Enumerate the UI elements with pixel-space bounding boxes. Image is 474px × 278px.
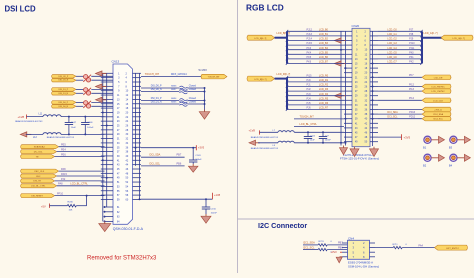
wire filter U12 to CN13 [91, 102, 113, 106]
CN4 pin numbers [353, 241, 366, 259]
CN4 pin stubs [342, 243, 375, 257]
svg-text:BEAD/FCM1608KF-601T03: BEAD/FCM1608KF-601T03 [251, 147, 279, 150]
ground arrow CN20 left row 3 [335, 38, 346, 43]
bus wire LCD_R [275, 77, 288, 109]
svg-text:EXT_RST12: EXT_RST12 [446, 248, 459, 250]
CN13 pin stubs [101, 73, 141, 199]
svg-text:DSI_RESET: DSI_RESET [31, 195, 43, 197]
svg-text:+3V3: +3V3 [404, 136, 411, 140]
power +1V8 (right) [212, 193, 220, 199]
junction dot C150 [205, 198, 207, 200]
wire +3V3_D [378, 109, 422, 111]
svg-text:TOUCH_INT: TOUCH_INT [145, 73, 160, 76]
wire L11 to CN13 [61, 116, 105, 118]
capacitor C77 [319, 132, 332, 143]
svg-text:PF10: PF10 [57, 193, 64, 196]
power +5V [41, 204, 50, 209]
resistor R741 0 [318, 248, 332, 253]
resistor R236 10K [67, 202, 76, 212]
connector CN20 (RGB LCD) [352, 24, 371, 147]
svg-text:C146: C146 [87, 122, 93, 124]
wire DCI_SDA [378, 113, 422, 115]
wire +3V3 row [141, 147, 196, 149]
port flag CEC_CLK [21, 169, 59, 173]
wire SB37 to rail [187, 91, 204, 93]
svg-text:LCD_VSYNC: LCD_VSYNC [432, 91, 446, 93]
resistor R731 0 [318, 241, 332, 246]
svg-text:PE4: PE4 [61, 149, 66, 152]
svg-text:C149: C149 [195, 155, 201, 157]
svg-text:B2: B2 [423, 163, 427, 167]
svg-text:PJ8: PJ8 [409, 33, 414, 36]
junction dots on left rails [102, 111, 108, 178]
CN13 pin numbers [117, 72, 129, 201]
svg-text:DSI_D0_N: DSI_D0_N [59, 106, 69, 108]
svg-text:PJ1: PJ1 [307, 84, 312, 87]
svg-text:RGB LCD: RGB LCD [246, 3, 284, 13]
junction dot C149 [192, 147, 194, 149]
svg-text:SB36: SB36 [171, 86, 177, 88]
svg-text:CN4: CN4 [348, 236, 354, 240]
svg-text:LCD_B7: LCD_B7 [319, 61, 329, 64]
svg-text:I2C_SCL: I2C_SCL [34, 151, 44, 153]
wire SB35 to rail [187, 103, 204, 105]
svg-text:DSI LCD: DSI LCD [5, 5, 37, 14]
power +3V3 CN4 [331, 250, 343, 254]
svg-text:R731: R731 [319, 241, 325, 243]
svg-text:+5V: +5V [41, 205, 46, 209]
svg-text:LCD_G7: LCD_G7 [387, 61, 397, 64]
connector CN13 (DSI, QSH-030) [112, 60, 133, 225]
svg-text:PK0: PK0 [409, 51, 414, 54]
wire SDA/SDA4 to CN13 [59, 146, 105, 148]
svg-text:LCD_R3: LCD_R3 [319, 88, 329, 91]
wire SB36 to rail [187, 87, 204, 89]
svg-text:PI12: PI12 [409, 83, 415, 86]
wire LCD_BL_CTRL [57, 185, 105, 187]
svg-text:100nF: 100nF [325, 140, 332, 142]
svg-text:LCD_DE: LCD_DE [434, 77, 443, 79]
common-mode filter U11 [83, 88, 91, 96]
svg-text:To MFX: To MFX [198, 69, 207, 72]
svg-text:DSI_TE: DSI_TE [33, 181, 41, 183]
button B2 [423, 154, 445, 167]
inductor L7 [273, 130, 295, 132]
resistor R711 0 [393, 244, 408, 249]
CN20 pin numbers [355, 30, 368, 143]
svg-text:10nF: 10nF [71, 127, 77, 129]
svg-text:DCI_SDA: DCI_SDA [150, 154, 161, 157]
svg-text:SB35: SB35 [171, 102, 177, 104]
svg-text:PE5: PE5 [61, 144, 66, 147]
port flag DSI_D0_N [52, 105, 77, 109]
ground under C149 [188, 164, 198, 172]
solder bridge SB37 [179, 90, 187, 94]
CN13 shield pins 61-64 [104, 206, 121, 223]
wire TOUCH_INT [141, 76, 201, 78]
wire DSI_D1_N to filter [76, 92, 83, 94]
ground arrow CN4 pin7 [336, 257, 342, 263]
svg-text:SSM-104-L-DH (Samtec): SSM-104-L-DH (Samtec) [348, 264, 379, 268]
svg-text:PE6: PE6 [61, 153, 66, 156]
svg-text:PI15: PI15 [307, 74, 313, 77]
ground under CN20 right rail [370, 147, 379, 157]
ground arrow CN20 left row 8 [335, 61, 346, 66]
svg-text:BEAD/FCM1608KF-601T03: BEAD/FCM1608KF-601T03 [251, 136, 279, 139]
wire I2C_SCL to CN13 [57, 151, 105, 153]
svg-text:LCD_G2: LCD_G2 [387, 38, 397, 41]
wire R741 to CN4 [327, 249, 347, 251]
port flag TE [21, 155, 55, 159]
svg-text:CN20: CN20 [352, 24, 360, 28]
wire DSI_D0_P to filter [76, 101, 83, 103]
ground under CN20 left rails [340, 146, 348, 155]
junction dots RGB bead rows [307, 131, 324, 144]
port flag LCD_DE [422, 75, 451, 80]
svg-text:PA4: PA4 [418, 244, 423, 247]
wire LCD_BL_CTRL (RGB) [294, 126, 344, 128]
wire filter U10 to CN13 [91, 76, 113, 80]
ground under CN13 left rails [99, 221, 111, 231]
inductor L12 [33, 133, 61, 140]
ground under CN20 [350, 147, 359, 157]
port flag LCD_HSYNC [422, 84, 451, 89]
svg-text:LCD_HSYNC: LCD_HSYNC [431, 87, 445, 89]
wire L7 to CN20 [294, 131, 344, 133]
svg-text:I2C4_SDA: I2C4_SDA [433, 113, 443, 116]
svg-text:CN13: CN13 [112, 60, 120, 64]
svg-text:PK1: PK1 [409, 56, 414, 59]
power +1V8 (DSI) [18, 115, 27, 119]
port flag DSI_D1_N [52, 92, 77, 96]
wire LCD_VSYNC [378, 90, 422, 92]
svg-text:LCD_B0: LCD_B0 [319, 28, 329, 31]
svg-text:PJ5: PJ5 [307, 102, 312, 105]
svg-text:LCD_G[0..7]: LCD_G[0..7] [453, 38, 466, 40]
bus wire LCD_G [422, 31, 442, 63]
svg-text:PJ14: PJ14 [307, 38, 313, 41]
svg-text:PJ4: PJ4 [307, 97, 312, 100]
svg-text:LCD_B4: LCD_B4 [319, 47, 329, 50]
port flag DSI_TE [21, 179, 55, 183]
svg-text:PJ9: PJ9 [409, 38, 414, 41]
svg-text:LCD_B3: LCD_B3 [319, 42, 329, 45]
svg-text:B4: B4 [449, 163, 453, 167]
svg-text:LCD_G[0..7]: LCD_G[0..7] [424, 32, 438, 35]
button B1 [423, 136, 445, 149]
svg-text:PJ3: PJ3 [307, 93, 312, 96]
capacitor C156 [304, 132, 316, 143]
wire +1V8 RGB feed [260, 131, 279, 133]
capacitor C149 [189, 148, 202, 164]
svg-text:DSI_D1_P: DSI_D1_P [59, 89, 69, 91]
svg-text:LCD_B5: LCD_B5 [319, 51, 329, 54]
capacitor C147 [65, 117, 77, 135]
svg-text:100nF: 100nF [195, 159, 202, 161]
button B4 [449, 154, 471, 167]
svg-text:LCD_B2: LCD_B2 [319, 38, 329, 41]
power +1V8 (RGB) [249, 129, 260, 135]
svg-text:LCD_B[0..7]: LCD_B[0..7] [254, 38, 266, 40]
svg-text:PJ10: PJ10 [409, 42, 415, 45]
svg-text:PK2: PK2 [409, 61, 414, 64]
svg-text:PJ6: PJ6 [307, 107, 312, 110]
ground arrow pin row 1 [96, 71, 107, 76]
svg-text:BEAD/FCM1608KF-601T03: BEAD/FCM1608KF-601T03 [47, 136, 75, 139]
svg-text:LCD_R1: LCD_R1 [319, 79, 329, 82]
svg-text:+3V3_D: +3V3_D [434, 110, 442, 112]
svg-text:PD13: PD13 [409, 111, 416, 114]
bus flag LCD_B[0..7] [247, 35, 275, 40]
wire: CN20 right rail [372, 31, 374, 146]
port flag DSI_D0_P [52, 101, 77, 105]
svg-text:+3V3: +3V3 [331, 250, 338, 254]
svg-text:Closed: Closed [189, 98, 197, 100]
svg-text:I2C Connector: I2C Connector [258, 221, 307, 230]
bus flag LCD_R[0..7] [247, 76, 275, 81]
svg-text:PJ12: PJ12 [307, 28, 313, 31]
svg-text:TOUCH_INT: TOUCH_INT [300, 116, 315, 119]
wire +5V to R236 [50, 205, 68, 207]
svg-text:+1V8: +1V8 [214, 193, 221, 197]
solder bridge SB35 [179, 102, 187, 106]
svg-text:DSI_D0_P: DSI_D0_P [59, 102, 69, 104]
svg-text:LCD_R4: LCD_R4 [319, 93, 329, 96]
svg-text:SDA/SDA4: SDA/SDA4 [34, 145, 46, 148]
svg-text:C147: C147 [71, 122, 77, 124]
svg-text:I2C4_SCL: I2C4_SCL [433, 119, 443, 121]
wire L12 to CN13 [61, 133, 105, 135]
bus wire LCD_B [275, 31, 288, 63]
capacitor C150 [202, 199, 218, 214]
svg-text:DSI_CK_P: DSI_CK_P [59, 76, 69, 78]
wires LCD_R0..R7 with labels [286, 74, 344, 111]
wire filter U11 to CN13 [91, 89, 113, 93]
power +3V3 (touch) [196, 145, 204, 150]
wire R236 to DSI_RESET [76, 196, 86, 206]
svg-text:LCD_R6: LCD_R6 [319, 102, 329, 105]
svg-text:B1: B1 [423, 145, 427, 149]
wire L8 row [258, 142, 278, 144]
svg-text:CEC: CEC [36, 176, 41, 178]
wire LCD_DE [378, 76, 422, 78]
svg-text:PJ0: PJ0 [307, 79, 312, 82]
svg-text:LCD_BL_CTRL: LCD_BL_CTRL [300, 123, 318, 126]
port flag SDA/SDA4 [21, 145, 59, 149]
svg-text:LCD_R7: LCD_R7 [319, 107, 329, 110]
port flag DSI_RESET [21, 194, 55, 198]
svg-text:SB34: SB34 [171, 98, 177, 100]
svg-text:PK3: PK3 [307, 47, 312, 50]
wire TOUCH_INT (RGB) [294, 118, 344, 120]
capacitor C146 [81, 117, 94, 135]
wire +1V8 feed [27, 116, 44, 118]
svg-text:LCD_B6: LCD_B6 [319, 56, 329, 59]
port flag LCD_CLK [422, 98, 451, 103]
svg-text:DSI_D1_N: DSI_D1_N [151, 102, 162, 104]
svg-text:BEAD/FCM1608KF-601T03: BEAD/FCM1608KF-601T03 [15, 120, 43, 123]
svg-text:PJ11: PJ11 [409, 47, 415, 50]
wire I2C1_SCL to R741 [303, 249, 318, 251]
section divider vertical [237, 0, 239, 273]
svg-text:PK5: PK5 [307, 56, 312, 59]
wire: CN13 right rail 1 [135, 73, 137, 166]
svg-text:MFX_GPIO14: MFX_GPIO14 [171, 73, 187, 76]
wire DSI_D1_N to SB35 [141, 103, 179, 105]
svg-text:DCI_SDA: DCI_SDA [387, 111, 398, 114]
svg-text:LCD_G3: LCD_G3 [387, 42, 397, 45]
svg-text:Closed: Closed [189, 86, 197, 88]
inductor L11 [39, 114, 62, 117]
port flag LCD_VSYNC [422, 89, 451, 94]
connector CN4 [348, 236, 370, 259]
svg-text:PK4: PK4 [307, 51, 312, 54]
solder bridge SB36 [179, 86, 187, 90]
button B3 [449, 136, 471, 149]
ground arrow CN20 left row 15 [335, 93, 346, 98]
svg-text:10K: 10K [69, 209, 73, 211]
svg-text:LCD_BL_CTRL: LCD_BL_CTRL [31, 186, 46, 188]
port flag DSI_CK_N [52, 78, 77, 82]
svg-text:LCD_R2: LCD_R2 [319, 84, 329, 87]
wires LCD_B0..B7 with labels [286, 28, 344, 65]
CN20 pin stubs [344, 31, 378, 141]
wire SB34 to rail [187, 100, 204, 102]
common-mode filter U10 [83, 75, 91, 83]
wires LCD_G0..G7 with labels [378, 28, 423, 65]
svg-text:DSI_D0_P: DSI_D0_P [151, 86, 162, 88]
svg-text:PJ15: PJ15 [307, 42, 313, 45]
svg-text:C156: C156 [310, 135, 316, 137]
svg-text:Removed for STM32H7x3: Removed for STM32H7x3 [87, 256, 157, 262]
svg-text:LCD_G6: LCD_G6 [387, 56, 397, 59]
svg-text:PK6: PK6 [307, 61, 312, 64]
wire +1V8 row (right) [141, 198, 212, 200]
svg-text:DCI_SCL: DCI_SCL [150, 162, 161, 165]
junction dots bead rows [68, 116, 86, 136]
port flag EXT_RST [435, 245, 468, 250]
svg-text:PJ13: PJ13 [307, 33, 313, 36]
svg-text:PA8: PA8 [61, 168, 66, 171]
wire DSI_D1_P to SB34 [141, 100, 179, 102]
svg-text:C150: C150 [211, 209, 217, 211]
svg-text:FTSH-125-01-F-DV-K (Samtec): FTSH-125-01-F-DV-K (Samtec) [340, 157, 379, 161]
svg-text:PK7: PK7 [409, 74, 414, 77]
svg-text:TOUCH_INT: TOUCH_INT [208, 77, 221, 79]
svg-text:100nF: 100nF [211, 212, 218, 214]
svg-text:PD12: PD12 [409, 116, 416, 119]
svg-text:100nF: 100nF [87, 127, 94, 129]
wire DSI_D0_N to filter [76, 105, 83, 107]
svg-text:PJ2: PJ2 [307, 88, 312, 91]
wire CEC to CN13 [57, 175, 105, 177]
wire I2C1_SDA to R731 [303, 244, 318, 246]
wire DSI_D0_P to SB36 [141, 87, 179, 89]
wire LCD_HSYNC [378, 86, 422, 88]
svg-text:QSH-030-01-F-D-A: QSH-030-01-F-D-A [113, 227, 144, 231]
wire L12 row [26, 133, 43, 135]
svg-text:PJ2: PJ2 [61, 178, 66, 181]
wire L8 to rail [294, 142, 345, 144]
svg-text:PA8: PA8 [58, 183, 63, 186]
port flag CEC [21, 174, 57, 178]
wire R731 to CN4 [327, 244, 347, 246]
junction dots on right rails [135, 147, 141, 201]
power arrow left of L8 row [249, 140, 260, 145]
wire: CN20 left rail 2 [345, 31, 347, 145]
wire R711 to flag [402, 247, 434, 249]
junction dot pullup [86, 195, 88, 197]
svg-text:DSI_D1_P: DSI_D1_P [151, 98, 162, 100]
svg-text:SB37: SB37 [171, 89, 177, 91]
svg-text:+1V8: +1V8 [18, 115, 25, 119]
wire: CN13 left ground rail 1 [102, 73, 104, 221]
svg-text:PA15: PA15 [61, 173, 68, 176]
wire: CN13 left ground rail 2 [106, 73, 108, 207]
svg-text:LCD_CLK: LCD_CLK [433, 100, 443, 102]
svg-text:+3V3: +3V3 [198, 145, 205, 149]
wire DSI_CK_P to filter [76, 75, 83, 77]
port flag DSI_D1_P [52, 88, 77, 92]
port flag DSI_CK_P [52, 75, 77, 79]
svg-text:DSI_CK_N: DSI_CK_N [58, 80, 68, 82]
svg-text:Closed: Closed [189, 89, 197, 91]
junction dots CN20 left rails [340, 49, 347, 144]
port flag +3V3_D [422, 107, 451, 112]
wire DSI_CK_N to filter [76, 79, 83, 81]
solder bridge SB34 [179, 99, 187, 103]
wire DSI_RESET [55, 195, 105, 197]
svg-text:LCD_R[0..7]: LCD_R[0..7] [254, 79, 266, 81]
wire: SB ground rail [204, 88, 206, 111]
svg-text:LCD_G1: LCD_G1 [387, 33, 397, 36]
wire DCI_SCL [141, 165, 185, 167]
svg-text:B3: B3 [449, 145, 453, 149]
junction dots CN20 right rail [372, 63, 374, 120]
svg-text:LCD_G5: LCD_G5 [387, 51, 397, 54]
svg-text:+1V8: +1V8 [249, 129, 256, 133]
wire CN4 pin4 to R711 [375, 247, 393, 249]
wire LCD_CLK [378, 99, 422, 101]
bus flag LCD_G[0..7] [441, 35, 473, 40]
ground under C150 [201, 214, 211, 223]
wire TE to CN13 [55, 156, 105, 158]
svg-text:CEC_CLK: CEC_CLK [34, 171, 45, 173]
inductor L8 [273, 141, 295, 147]
svg-text:DCI_SCL: DCI_SCL [387, 116, 398, 119]
port flag I2C_SCL [21, 150, 57, 154]
svg-text:LCD_BL_CTRL: LCD_BL_CTRL [70, 183, 88, 186]
wire DSI_D1_P to filter [76, 88, 83, 90]
wire DSI_TE to CN13 [55, 180, 105, 182]
svg-text:LCD_B1: LCD_B1 [319, 33, 329, 36]
svg-text:LCD_B[0..7]: LCD_B[0..7] [277, 32, 291, 35]
wire DCI_SCL [378, 118, 422, 120]
section divider horizontal (RGB/I2C) [238, 218, 474, 220]
svg-text:LCD_G4: LCD_G4 [387, 47, 397, 50]
svg-text:10uF: 10uF [310, 140, 315, 142]
svg-text:R711: R711 [393, 244, 399, 246]
svg-text:PI14: PI14 [409, 97, 415, 100]
ground under SB rail [199, 110, 210, 120]
svg-text:DSI_D1_N: DSI_D1_N [59, 93, 69, 95]
port flag TOUCH_INT [201, 74, 227, 79]
ground arrow pin row 4 [96, 84, 107, 89]
ground arrow left of L12 row [20, 132, 31, 137]
junction dots SB rail [204, 87, 206, 105]
wire CEC_CLK to CN13 [59, 170, 105, 172]
svg-text:PB7: PB7 [177, 154, 182, 157]
